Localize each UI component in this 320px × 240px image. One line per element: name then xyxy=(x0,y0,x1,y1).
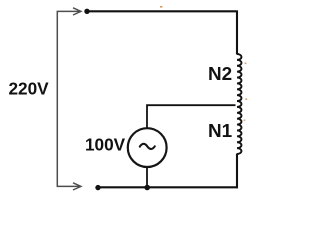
jpeg artifact speck above top wire xyxy=(160,6,162,8)
ac source V1 (100V) circle xyxy=(128,128,167,167)
node B (bottom-left junction dot) xyxy=(95,185,100,190)
svg-text:100V: 100V xyxy=(85,135,126,155)
jpeg artifact speck near winding middle xyxy=(245,98,247,100)
wire: bottom horizontal from node B to bottom-right corner xyxy=(97,186,238,188)
220V dimension bracket (gray) xyxy=(57,11,80,186)
arrowhead top (points right to node A) xyxy=(73,8,81,15)
jpeg artifact speck near winding top xyxy=(245,63,247,65)
wire: tap from source top to winding centre tap xyxy=(147,105,236,128)
svg-text:N1: N1 xyxy=(208,121,232,142)
node A (top junction dot) xyxy=(84,9,89,14)
node C (source-to-bottom-wire junction dot) xyxy=(144,185,150,191)
winding N2+N1 (autotransformer coil) xyxy=(237,54,241,154)
svg-text:220V: 220V xyxy=(9,79,50,99)
wire: source bottom lead xyxy=(146,167,148,188)
wire: right vertical upper segment xyxy=(236,10,238,54)
wire: right vertical lower segment xyxy=(236,154,238,189)
arrowhead bottom (points right to node B) xyxy=(73,183,81,190)
jpeg artifact speck near winding lower xyxy=(244,120,246,122)
wire: top horizontal from node A to top-right corner xyxy=(86,10,236,12)
ac sine symbol inside source xyxy=(140,144,155,149)
svg-text:N2: N2 xyxy=(208,64,232,85)
